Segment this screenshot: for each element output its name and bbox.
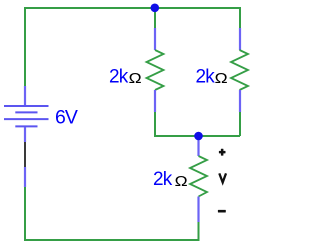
node A junction dot xyxy=(151,4,160,13)
battery V1 top lead xyxy=(24,86,26,105)
battery V1 lead lower blue segment xyxy=(24,167,26,187)
resistor R1 bottom lead xyxy=(154,90,156,112)
battery V1 lead black segment xyxy=(24,142,26,167)
resistor R3 top lead xyxy=(197,136,199,156)
resistor R1 top lead xyxy=(154,28,156,50)
svg-text:Ω: Ω xyxy=(215,71,228,86)
wire right riser bottom xyxy=(198,221,200,241)
resistor R2 zigzag xyxy=(231,50,248,90)
node B junction dot xyxy=(194,132,203,141)
svg-text:2k: 2k xyxy=(109,67,129,88)
wire right upper xyxy=(239,7,241,29)
resistor R3 bottom lead xyxy=(197,197,199,223)
svg-text:6V: 6V xyxy=(55,106,78,128)
wire stub node A to R1 xyxy=(154,8,156,29)
label minus sign xyxy=(218,210,226,213)
wire left lower xyxy=(24,186,26,241)
battery V1 bottom lead xyxy=(24,127,26,142)
resistor R2 bottom lead xyxy=(239,90,241,112)
label plus sign xyxy=(219,149,226,156)
svg-text:2k: 2k xyxy=(196,67,216,88)
label v xyxy=(219,173,226,182)
svg-text:2k: 2k xyxy=(153,169,173,190)
wire top (node A rail) xyxy=(25,7,240,9)
battery V1 plates xyxy=(4,106,49,126)
wire R1 bottom to middle rail xyxy=(154,111,156,136)
svg-text:Ω: Ω xyxy=(129,71,142,86)
wire bottom xyxy=(24,239,200,241)
resistor R2 top lead xyxy=(239,28,241,50)
svg-text:Ω: Ω xyxy=(175,174,188,189)
wire R2 bottom to middle rail xyxy=(239,111,241,136)
resistor R3 zigzag xyxy=(190,156,207,197)
wire middle rail (node B) xyxy=(154,135,240,137)
resistor R1 zigzag xyxy=(147,50,164,90)
wire left upper xyxy=(24,7,26,86)
